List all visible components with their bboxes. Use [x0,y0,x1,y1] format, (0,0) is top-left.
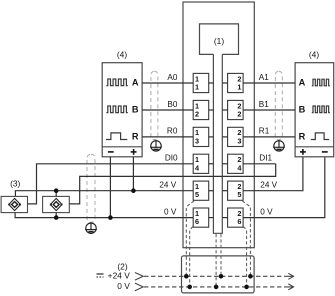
encoder right plus terminal [300,149,306,155]
terminal 2/4 (DI1) [222,154,243,173]
wire 24V right to encoder plus [243,157,303,191]
encoder left signal B waveform [106,106,127,113]
wire DI0 from sensor S1 [28,164,194,204]
junction bus 1/6 0V [187,285,192,290]
svg-text:24 V: 24 V [159,181,176,190]
svg-text:R0: R0 [167,127,178,136]
wire sensor S2 top to 24V [55,191,57,197]
cable shield capsule sensors [87,154,95,222]
encoder left minus terminal [108,151,114,153]
svg-text:(4): (4) [309,49,319,59]
svg-text:24 V: 24 V [260,181,277,190]
svg-text:5: 5 [195,190,199,199]
svg-text:+24 V: +24 V [108,271,131,281]
wire 0V right to encoder minus [243,157,325,217]
svg-text:6: 6 [195,217,199,226]
dashed wire terminal 2/6 to 0V bus [243,227,246,287]
svg-text:A1: A1 [259,73,269,82]
svg-text:R: R [132,132,139,142]
terminal 1/2 (B0) [193,100,213,119]
svg-text:(3): (3) [10,178,20,188]
DC symbol [97,274,104,277]
svg-text:A: A [132,78,139,88]
svg-text:0 V: 0 V [260,207,273,216]
wire B1 [243,109,295,111]
module inner block (1) [200,24,239,55]
0V supply bus [135,283,294,291]
encoder right signal R waveform [311,133,329,140]
terminal 1/3 (R0) [193,127,213,146]
svg-text:1: 1 [237,83,241,92]
encoder left plus terminal [131,149,137,155]
terminal 2/2 (B1) [222,100,243,119]
encoder right minus terminal [322,151,328,153]
svg-text:3: 3 [195,136,199,145]
svg-text:2: 2 [195,110,199,119]
terminal 2/6 (0V1) [222,208,243,227]
dashed wire terminal 2/5 to +24V bus [242,201,250,276]
svg-text:5: 5 [237,190,241,199]
terminal 2/5 (24V1) [222,181,243,200]
junction bus stem 0V [214,285,219,290]
svg-text:0 V: 0 V [117,281,130,291]
terminal 1/4 (DI0) [193,154,213,173]
encoder right signal B waveform [312,106,330,113]
junction S2/0V [54,215,59,220]
svg-text:0 V: 0 V [164,207,177,216]
sensor switch S2 [43,196,70,212]
shield earth symbol right cable [273,140,285,151]
wire DI1 [243,163,276,165]
junction bus 2/5 +24 [248,274,253,279]
svg-text:1: 1 [195,83,199,92]
svg-text:B: B [132,105,139,115]
svg-text:DI1: DI1 [259,154,272,163]
shield earth symbol sensor cable [85,223,97,234]
svg-text:A: A [299,78,306,88]
terminal 1/5 (24V0) [193,181,213,200]
wire A1 [243,82,295,84]
wire encoder left plus to 24V [132,157,134,191]
cable shield capsule right encoder [275,71,282,139]
encoder right (4) [295,49,334,156]
junction S2/24V [54,188,59,193]
module (1) outer box [183,2,254,248]
shield earth symbol left cable [150,140,162,151]
internal bus stem [213,54,222,233]
dashed wire stem to 0V bus [215,234,217,287]
svg-text:B: B [299,105,306,115]
svg-text:B1: B1 [259,100,269,109]
terminal 1/1 (A0) [193,73,213,92]
dashed wire terminal 1/5 to +24V bus [186,201,194,276]
svg-text:2: 2 [237,110,241,119]
terminal 1/6 (0V0) [193,208,213,227]
terminal 2/1 (A1) [222,73,243,92]
dashed wire terminal 1/6 to 0V bus [190,227,193,287]
junction bus 1/5 +24 [184,274,189,279]
dashed wire stem to +24V bus [220,234,222,276]
svg-text:A0: A0 [167,73,177,82]
junction enc-/0V [108,215,113,220]
cable shield capsule left encoder [151,71,158,139]
wire sensor S2 to DI1 [69,164,275,204]
terminal 2/3 (R1) [222,127,243,146]
junction bus 2/6 0V [244,285,249,290]
wire A0 [142,82,193,84]
encoder left signal R waveform [106,133,127,140]
svg-text:R: R [299,132,306,142]
wire B0 [142,109,193,111]
encoder left signal A waveform [106,79,127,86]
wire R1 [243,136,295,138]
junction bus stem +24 [219,274,224,279]
sensor switch S1 [1,196,27,212]
wire encoder left minus to 0V [109,157,111,218]
svg-text:B0: B0 [167,100,177,109]
svg-text:DI0: DI0 [165,154,178,163]
junction enc+/24V [131,188,136,193]
svg-text:(4): (4) [117,49,127,59]
power rail box [182,256,255,293]
+24V supply bus [135,273,294,281]
wire 24V left [15,191,193,197]
encoder left (4) [102,49,142,156]
svg-text:3: 3 [237,136,241,145]
wire R0 [142,136,193,138]
svg-text:R1: R1 [259,127,270,136]
svg-text:(1): (1) [214,36,224,46]
wire 0V left [15,213,193,218]
svg-text:6: 6 [237,217,241,226]
wire sensor S2 bottom to 0V [55,213,57,218]
encoder right signal A waveform [312,79,330,86]
